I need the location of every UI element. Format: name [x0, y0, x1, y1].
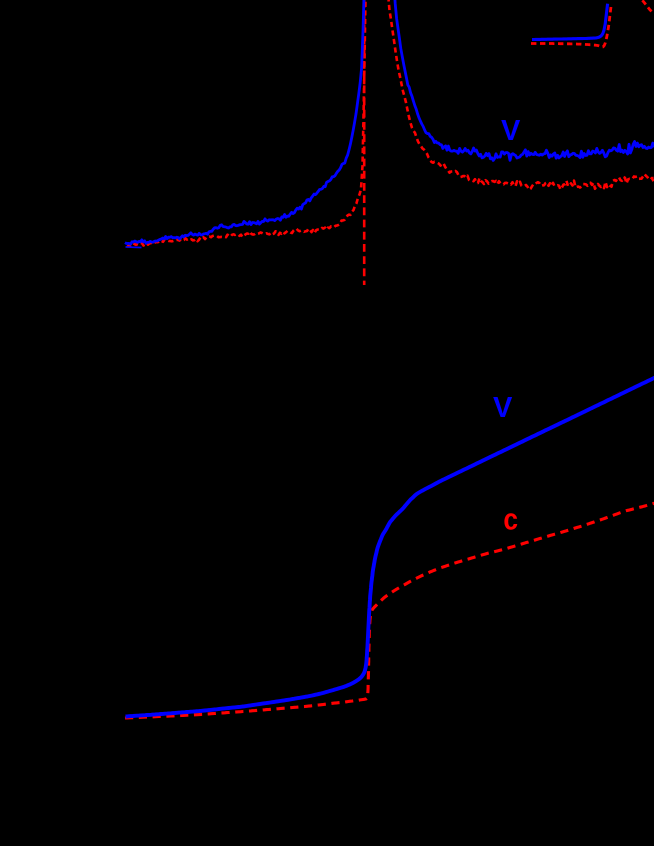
svg-text:V: V	[501, 115, 521, 147]
svg-text:V: V	[493, 392, 513, 424]
svg-text:c: c	[503, 503, 518, 537]
